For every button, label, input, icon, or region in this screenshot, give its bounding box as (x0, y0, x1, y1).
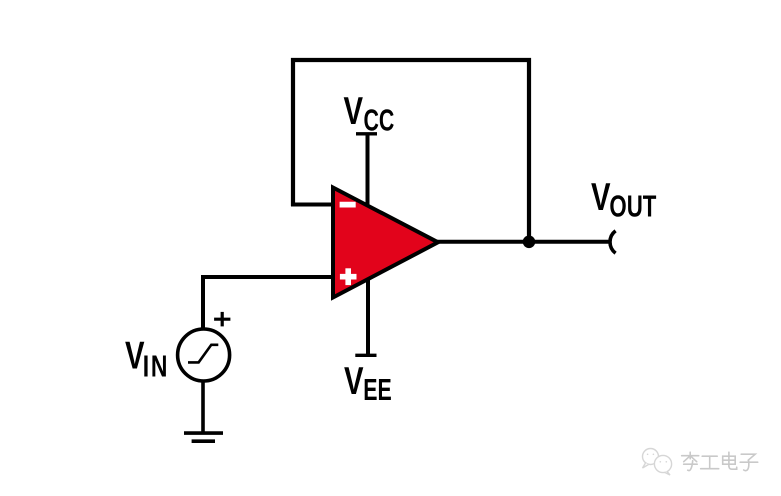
wire: VCC supply lead (366, 134, 370, 208)
ground (184, 433, 223, 441)
voltage source VIN (178, 329, 230, 381)
op-amp non-inverting input marker (+) (340, 268, 357, 285)
wire: output (436, 240, 610, 244)
watermark logo (chat bubbles) (643, 449, 672, 476)
wire: source to ground (201, 381, 205, 433)
svg-text:CC: CC (364, 103, 395, 138)
label VIN (125, 335, 169, 384)
watermark text (李工电子) (681, 452, 758, 471)
wire: feedback loop from output to inverting input (293, 60, 529, 242)
svg-text:V: V (344, 90, 364, 133)
op-amp U1 (333, 188, 438, 298)
wire: VEE supply lead (366, 278, 370, 355)
source polarity + (214, 312, 230, 327)
wire: non-inverting input (203, 277, 334, 329)
svg-text:V: V (591, 176, 611, 219)
label VCC (344, 90, 395, 137)
power VEE terminal tick (355, 354, 376, 357)
wire: inverting input stub (291, 203, 334, 207)
op-amp inverting input marker (-) (340, 202, 356, 208)
power VCC terminal tick (356, 132, 377, 135)
svg-text:IN: IN (143, 348, 170, 383)
svg-text:OUT: OUT (609, 189, 657, 223)
svg-text:EE: EE (363, 372, 391, 407)
svg-text:V: V (125, 335, 145, 378)
node: output junction dot (523, 236, 536, 249)
output terminal arc (610, 231, 616, 253)
label VEE (344, 360, 392, 407)
svg-text:V: V (344, 360, 364, 403)
label VOUT (591, 176, 657, 223)
